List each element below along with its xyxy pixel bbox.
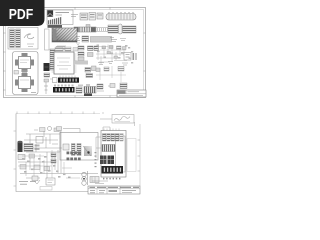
- pin stubs above relay box: [104, 129, 119, 131]
- resistor R2: [44, 79, 49, 82]
- latch IC U14 pin groups right of MCU: [78, 46, 84, 61]
- control board box page 2 middle: [60, 133, 98, 161]
- revision box page 2: [100, 115, 135, 127]
- frame ruler ticks page 2 top: [17, 112, 103, 115]
- connector ribbon CN1 hatched bar: [48, 25, 63, 28]
- data bus band: [74, 61, 88, 65]
- IC U2 small block top row: [80, 13, 88, 20]
- oscillator X1 vertical striped bar: [50, 49, 55, 70]
- buffer ICs U15 U16: [88, 46, 99, 57]
- page 2 sheet frame: [16, 114, 140, 192]
- wire stub below R2: [44, 82, 48, 94]
- frame tick marks page 1: [3, 7, 146, 98]
- title block page 2: [88, 186, 140, 194]
- extra wires left section page2: [18, 154, 80, 178]
- part P2: [108, 84, 115, 88]
- IC U6 notch capsule: [119, 24, 123, 34]
- transformer T1 dark pair: [44, 63, 50, 71]
- varistor RV1: [36, 137, 43, 144]
- speckle parts left section page2: [22, 156, 71, 178]
- parts above control box: [57, 127, 81, 133]
- gate IC U19 pair: [117, 46, 127, 50]
- wires power section: [24, 128, 62, 152]
- relay output dark row: [102, 166, 124, 174]
- wires to relay box: [96, 127, 110, 158]
- jumper JP1 between QFPs: [14, 70, 27, 74]
- wire squiggle in left box: [24, 34, 34, 47]
- transistor Q1 cluster: [85, 66, 96, 78]
- header connector J2 segmented row: [74, 25, 96, 33]
- electrolytic cap C6: [133, 53, 137, 60]
- IC U20 inside control box: [63, 144, 92, 157]
- IC U4 small block: [97, 13, 103, 19]
- tiny marks speckle: [97, 45, 128, 59]
- opto isolator group bottom left: [32, 176, 55, 185]
- cap C5 cluster right: [124, 53, 131, 61]
- relay coil row 1: [103, 134, 124, 142]
- memory IC U7 striped: [123, 26, 137, 33]
- diode D1 tiny: [108, 62, 113, 64]
- cap C7 top right of SW1: [78, 84, 90, 86]
- relay inner tall rect: [116, 136, 126, 172]
- transformer T2 winding striped: [24, 144, 33, 152]
- connector J6 vertical striped: [84, 87, 96, 97]
- label in module box: [31, 92, 36, 94]
- winding stripes right: [35, 145, 40, 151]
- heatsink plate right: [127, 139, 136, 172]
- decoupling caps above MCU: [55, 47, 78, 51]
- cap C4 tiny marks: [98, 63, 104, 65]
- terminal block TB1 bottom: [90, 177, 99, 183]
- small parts row y46: [56, 43, 80, 50]
- MCU pin stubs left: [52, 54, 55, 72]
- connector J5 left of DIP strip: [50, 78, 57, 83]
- PDF badge: [0, 0, 45, 26]
- wire mesh right of MCU: [96, 45, 128, 65]
- capacitor C3 below T1: [44, 73, 50, 77]
- pin header J4 long: [91, 37, 112, 43]
- fuse F1 top parts: [40, 127, 60, 132]
- transformer cells dark block: [100, 156, 114, 165]
- module box M1 rounded: [13, 52, 39, 95]
- page 1 sheet frame: [4, 8, 146, 98]
- pin row above SW2: [54, 85, 74, 87]
- part cluster x96 y68: [96, 67, 124, 72]
- MCU pin stubs right: [74, 54, 77, 72]
- DIP IC U10 vertical striped, left box: [8, 28, 38, 50]
- buzzer BZ1 hatched: [76, 87, 82, 93]
- resistor R1 marks: [120, 39, 126, 41]
- frame ticks page 2 left/right: [14, 131, 141, 186]
- QFP IC U12: [15, 73, 34, 92]
- resistor R4 tiny: [114, 56, 118, 58]
- terminal squares grid: [67, 152, 81, 161]
- small text bottom left page2: [19, 182, 36, 185]
- relay contact row 2: [102, 145, 115, 152]
- tick column left of relay box: [95, 152, 97, 167]
- capacitor C2 marks: [110, 38, 117, 42]
- pin dots below relay box: [103, 178, 120, 180]
- EPROM U8 big hatched block: [52, 28, 77, 42]
- title box with logo, page 1 top-left: [47, 10, 73, 25]
- resistor network RN1 long capsule: [106, 12, 136, 20]
- capacitor C1 small marks: [76, 37, 80, 41]
- DIP switch SW2 black segmented strip: [53, 87, 75, 93]
- MCU U13 big square: [54, 52, 74, 74]
- gate IC U18 tiny: [109, 46, 113, 49]
- memory IC U5 striped: [108, 25, 118, 33]
- wires lower left page 2: [18, 130, 98, 178]
- DIP switch SW1 black segmented strip: [58, 76, 79, 83]
- extra vertical wires mid page2: [44, 150, 55, 174]
- resistor R3 tiny: [107, 52, 111, 54]
- resistor pack marks row, top: [71, 15, 78, 17]
- IC U3 small block top row: [89, 13, 96, 21]
- title block page 1: [117, 90, 146, 97]
- inductor L1 coil bottom: [82, 171, 88, 185]
- wires lower right page1: [96, 66, 126, 82]
- regulator VR1 pair: [51, 153, 56, 163]
- relay RL1 array box: [101, 131, 126, 178]
- part P1 bottom right cluster: [97, 84, 104, 91]
- rectifier block dark cylinder: [18, 141, 23, 152]
- tiny marks far right: [128, 47, 133, 64]
- QFP IC U11: [15, 53, 34, 72]
- part P3 hatched: [120, 83, 127, 89]
- svg-text:PDF: PDF: [9, 7, 34, 23]
- bottom connector lines: [92, 181, 108, 184]
- IC U9 hatched: [82, 36, 89, 42]
- resistor R5 marks below: [122, 63, 128, 65]
- header connector J3 pin bar: [96, 28, 110, 32]
- gate IC U17 tiny: [102, 46, 106, 49]
- narrow vertical box left of U8: [45, 29, 50, 50]
- diode bridge D2 cluster: [18, 154, 35, 160]
- caps cluster lower left: [20, 165, 50, 171]
- small box left of title: [40, 187, 52, 191]
